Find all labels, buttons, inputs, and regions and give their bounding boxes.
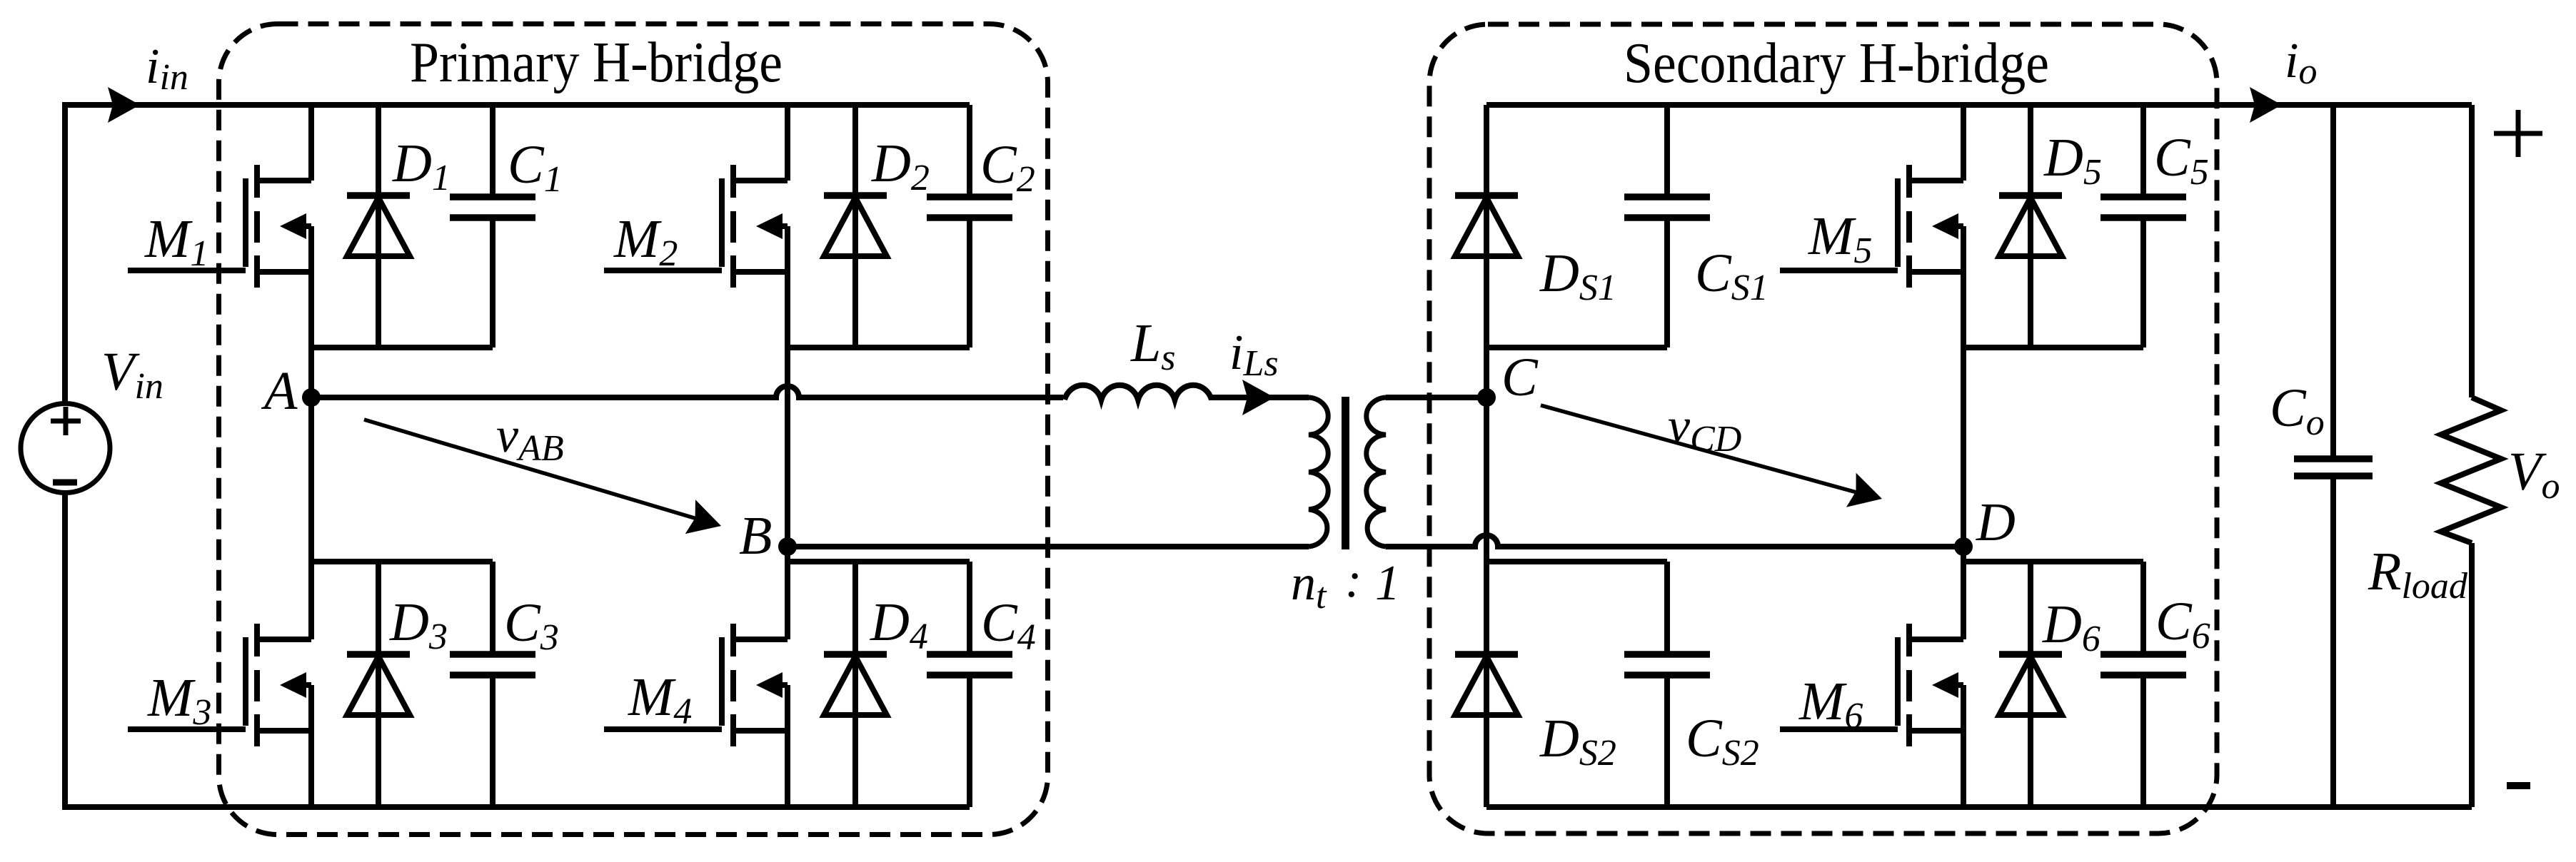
svg-text:Secondary H-bridge: Secondary H-bridge [1624,32,2049,95]
wire: M6 cell top horizontal [1963,559,2143,564]
capacitor CS1 [1624,197,1710,218]
label v_CD [1668,399,1741,460]
label D1 [392,133,451,198]
wire: D6 branch vertical [2028,562,2033,807]
diode D5 [1999,196,2062,256]
transistor M4 (MOSFET) [604,562,788,807]
voltage source Vin circle [21,404,110,493]
wire: transformer secondary bottom with hop, to node D [1386,535,1963,547]
transistor M3 (MOSFET) [128,562,311,807]
label C6 [2155,592,2210,656]
wire: C5 branch vertical [2140,105,2146,348]
label C3 [504,593,559,658]
wire: M2 cell bottom horizontal [788,345,970,350]
node C junction dot [1477,388,1496,407]
arrow i_in on top rail [108,87,140,123]
label colon of ratio [1345,553,1362,608]
diode D4 [824,654,887,715]
secondary H-bridge dashed boundary box [1429,24,2217,833]
wire: Co branch vertical [2330,105,2336,807]
wire: DS2 leg lower vertical [1484,562,1489,807]
label M1 [144,209,208,274]
Vin plus mark [51,407,81,435]
transistor M5 (MOSFET) [1780,105,1963,348]
label C_S2 [1686,709,1759,774]
wire: secondary left leg vertical upper [1484,105,1489,348]
label D_S1 [1539,243,1616,308]
label C_o [2270,378,2325,443]
output minus sign [2507,782,2530,789]
label node B [739,506,772,566]
node A junction dot [302,388,321,407]
annotation arrow v_AB from A towards B [364,420,721,534]
svg-text:D: D [1976,492,2016,552]
label C4 [981,593,1036,658]
transformer core bar [1342,397,1349,549]
capacitor C5 [2100,197,2186,218]
wire: M5 cell bottom horizontal [1963,345,2143,350]
Vin minus mark [53,480,77,486]
transistor M2 (MOSFET) [604,105,788,348]
wire: C3 branch vertical [490,562,495,807]
label node A [261,361,298,421]
transistor M1 (MOSFET) [128,105,311,348]
label M3 [147,668,211,733]
wire: M1 cell bottom horizontal [311,345,493,350]
diode DS1 [1455,196,1518,256]
wire: D1 branch vertical [376,105,381,348]
label M2 [613,209,678,274]
label v_AB [496,408,564,469]
inductor Ls [1065,385,1212,400]
wire: inductor to transformer primary top [1209,395,1309,400]
wire: leg2 vertical through node B [785,348,790,562]
wire: transformer secondary top to node C [1386,395,1486,400]
node B junction dot [778,537,797,556]
wire: C1 branch vertical [490,105,495,348]
capacitor C3 [450,654,535,675]
wire: DS1 cell bottom horizontal [1486,345,1667,350]
label V_in [101,342,163,407]
label 1 of ratio [1375,556,1400,611]
label: Secondary H-bridge title [1624,32,2049,95]
wire: C2 branch vertical [967,105,972,348]
label D5 [2043,128,2102,193]
capacitor CS2 [1624,654,1710,675]
label i_Ls [1229,325,1279,384]
label D6 [2042,594,2100,659]
label node D [1976,492,2016,552]
label C1 [508,135,563,200]
svg-text:A: A [261,361,298,421]
label C5 [2154,128,2209,193]
capacitor C1 [450,197,535,218]
label D3 [389,592,448,657]
arrow i_o on secondary top rail [2250,87,2282,123]
wire: input top loop from Vin to primary top rail [65,105,970,404]
wire: secondary top rail [1486,102,2472,108]
wire: M4 cell top horizontal [788,559,970,564]
capacitor Co [2294,459,2373,476]
arrow i_Ls on wire [1242,380,1274,415]
label node C [1501,348,1539,407]
label M4 [628,667,692,732]
capacitor C4 [927,654,1012,675]
wire: D2 branch vertical [852,105,858,348]
wire: leg1 vertical through node A [308,348,314,562]
diode D1 [347,196,410,256]
svg-text:Primary H-bridge: Primary H-bridge [410,31,783,94]
wire: D4 branch vertical [852,562,858,807]
svg-text::: : [1345,553,1362,608]
primary H-bridge dashed boundary box [219,24,1048,835]
node D junction dot [1954,537,1973,556]
capacitor C2 [927,197,1012,218]
wire: CS1 branch vertical [1664,105,1670,348]
wire: C6 branch vertical [2140,562,2146,807]
svg-text:1: 1 [1375,556,1400,611]
annotation arrow v_CD from C towards D [1541,405,1882,507]
svg-text:C: C [1501,348,1539,407]
transistor M6 (MOSFET) [1780,562,1963,807]
diode D2 [824,196,887,256]
wire: C4 branch vertical [967,562,972,807]
wire: secondary left leg vertical through node C [1484,348,1489,562]
label C2 [980,135,1035,200]
label n_t [1291,556,1327,617]
label C_S1 [1695,243,1769,308]
label M6 [1798,671,1863,736]
wire: D5 branch vertical [2028,105,2033,348]
wire: node A horizontal with hop over leg2 to inductor [311,386,1063,397]
label R_load [2368,542,2468,607]
label D2 [871,133,930,198]
label D_S2 [1539,709,1616,774]
label i_in [146,39,188,98]
wire: DS2 cell top horizontal [1486,559,1667,564]
label D4 [870,592,928,657]
wire: node B horizontal to transformer primary bottom [788,544,1309,549]
label V_o [2508,442,2560,507]
diode D3 [347,654,410,715]
resistor Rload zigzag [2441,397,2501,543]
label L_s [1130,313,1176,378]
wire: input bottom loop from Vin to primary bottom rail [65,493,970,807]
wire: CS2 branch vertical [1664,562,1670,807]
label: Primary H-bridge title [410,31,783,94]
wire: secondary right leg vertical through node D [1961,348,1966,562]
wire: D3 branch vertical [376,562,381,807]
diode D6 [1999,654,2062,715]
svg-text:B: B [739,506,772,566]
wire: load branch bottom [2469,543,2475,807]
diode DS2 [1455,654,1518,715]
output plus sign [2494,110,2542,157]
capacitor C6 [2100,654,2186,675]
transformer secondary winding [1367,397,1386,547]
label i_o [2285,34,2317,92]
wire: load branch top [2469,105,2475,397]
wire: M3 cell top horizontal [311,559,493,564]
wire: secondary bottom rail [1486,804,2472,810]
transformer primary winding [1309,397,1328,547]
label M5 [1808,206,1872,271]
